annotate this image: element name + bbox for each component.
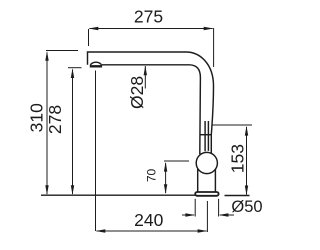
flange right extension (218, 199, 220, 217)
arrow d50 left (185, 213, 195, 216)
dim 278 line (72, 70, 74, 195)
svg-text:275: 275 (134, 7, 163, 27)
dim 278 tick (68, 67, 82, 69)
dim 153 line (246, 127, 248, 195)
ball valve body (196, 152, 217, 173)
spout tube outer outline (88, 52, 214, 153)
column body sides (198, 169, 216, 192)
arrow 275 right (204, 27, 214, 30)
arrow 153 up (245, 126, 248, 136)
dim d28 arrow shaft (144, 66, 146, 89)
dim 275 right extension (213, 28, 215, 67)
dim 240 line (97, 230, 207, 232)
arrow 70 up (164, 162, 167, 172)
svg-text:Ø28: Ø28 (127, 76, 147, 109)
svg-text:Ø50: Ø50 (231, 198, 262, 216)
svg-text:70: 70 (145, 169, 159, 183)
spout tube inner/bottom line (102, 65, 200, 154)
arrow 153 down (245, 186, 248, 196)
dim 70 line (165, 163, 167, 193)
svg-text:278: 278 (45, 105, 65, 134)
dim 275 line (90, 28, 213, 30)
flange left extension (194, 199, 196, 217)
aerator base plate (90, 65, 102, 67)
arrow 240 right (198, 229, 208, 232)
dim d50 right shaft (220, 214, 234, 216)
base flange (195, 192, 218, 196)
dim 310 tick (46, 50, 78, 52)
dim 70 tick (164, 160, 189, 162)
svg-text:153: 153 (228, 144, 248, 173)
counter base line right (225, 195, 250, 197)
arrow 278 up (71, 68, 74, 78)
arrow d28 up (144, 66, 147, 76)
arrow 310 down (45, 185, 48, 195)
arrow 240 left (96, 229, 106, 232)
dim d50 left shaft (182, 214, 194, 216)
svg-text:240: 240 (134, 210, 163, 230)
arrow 278 down (71, 185, 74, 195)
inner hose pipe lines (205, 121, 208, 151)
arrow 70 down (164, 184, 167, 194)
arrow 310 up (45, 51, 48, 61)
dim 153 tick (213, 124, 253, 126)
dim 310 line (46, 53, 48, 195)
svg-text:310: 310 (26, 103, 46, 132)
dim 275 left extension (88, 29, 90, 46)
base center extension line (206, 201, 208, 232)
arrow d50 right (219, 213, 229, 216)
arrow 275 left (89, 27, 99, 30)
neck joint line (200, 134, 212, 136)
aerator extension line (95, 71, 97, 232)
counter base line left (41, 194, 196, 196)
aerator dome (90, 62, 101, 65)
